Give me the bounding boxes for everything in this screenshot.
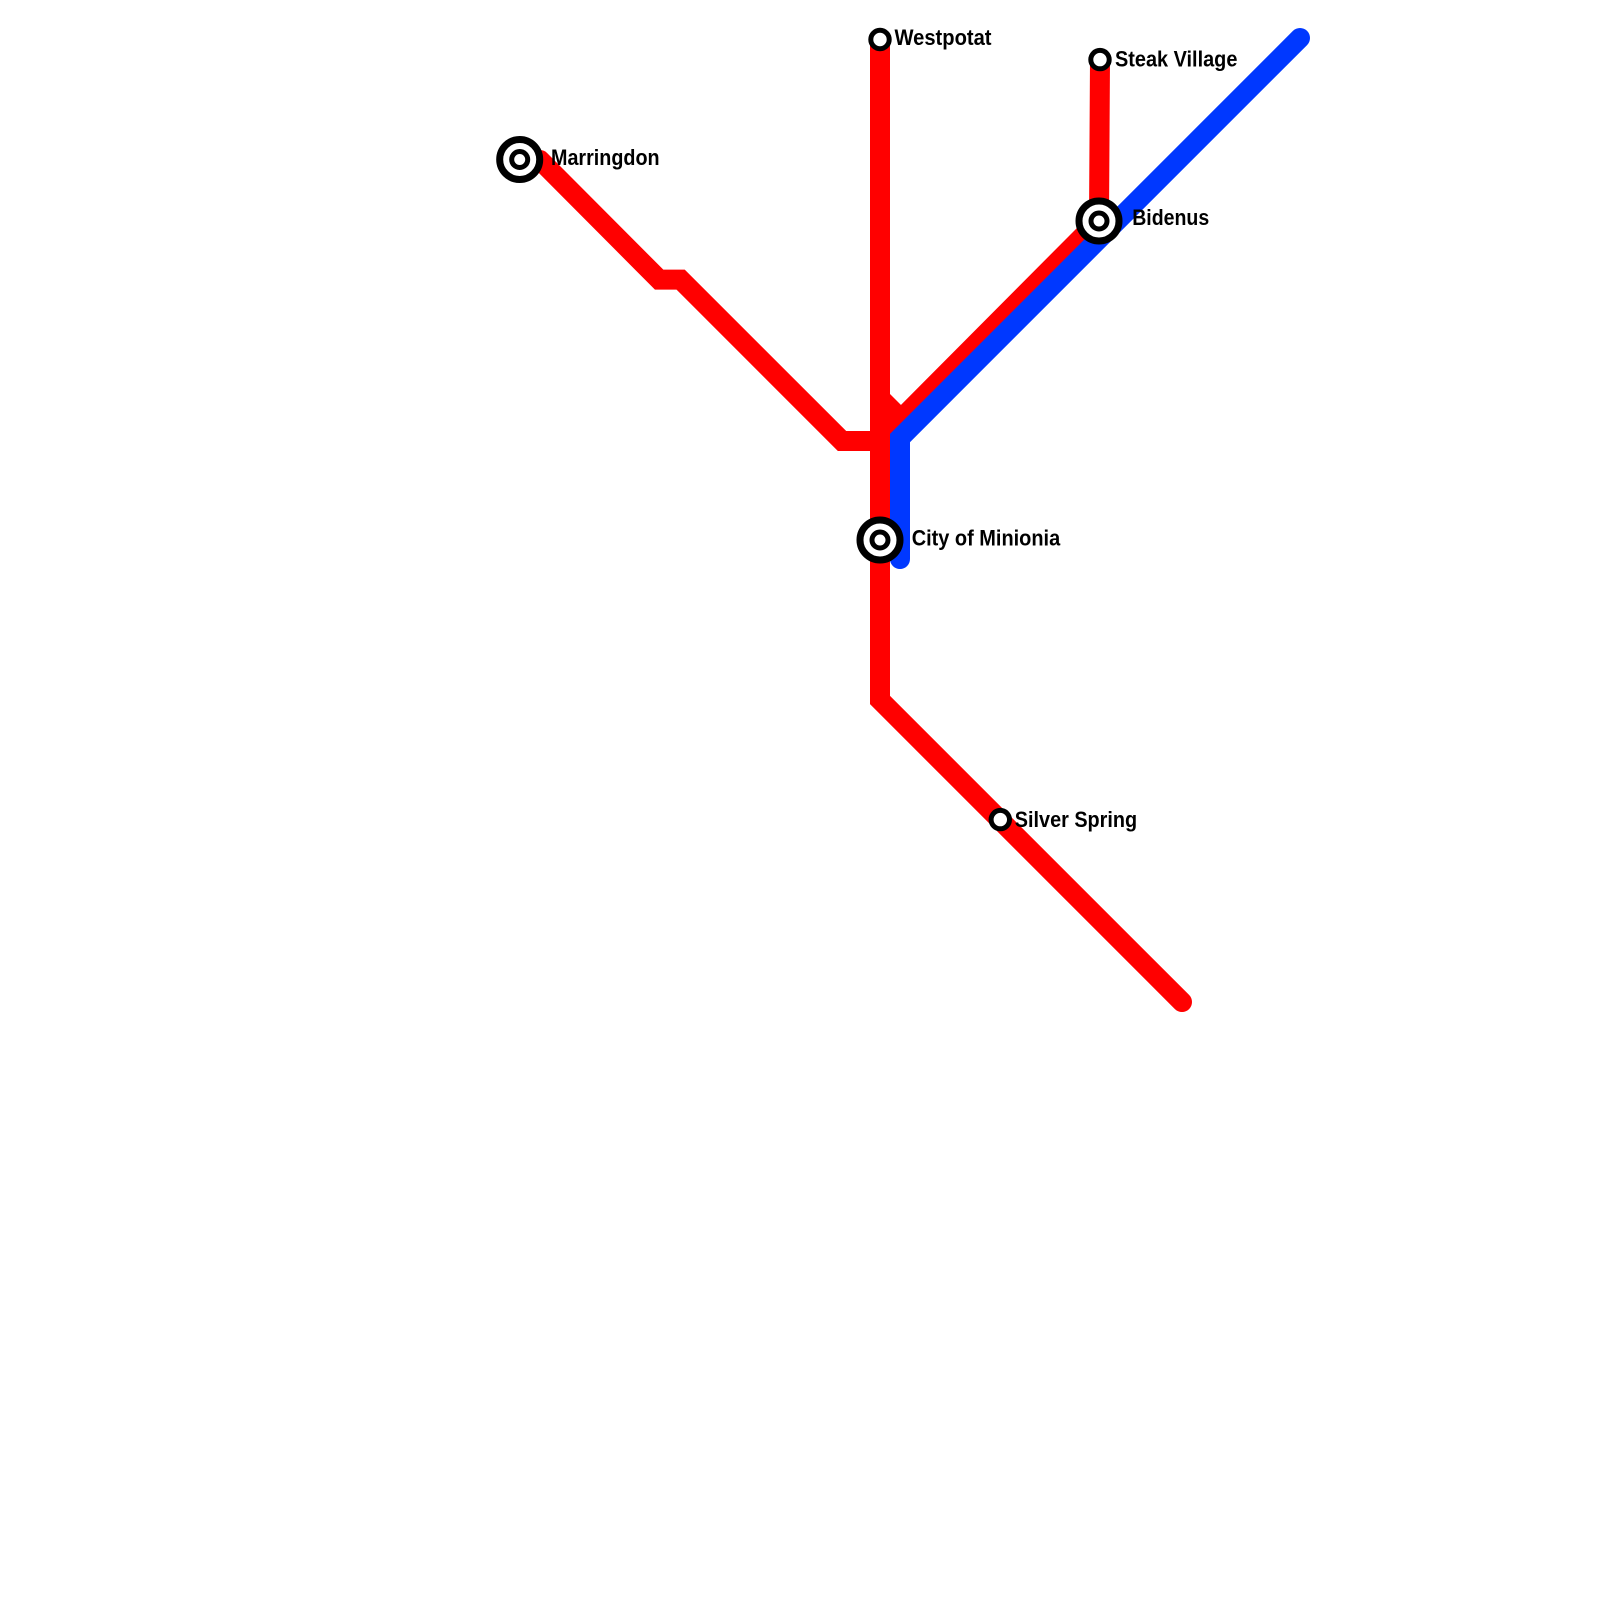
station Steak Village [1091,50,1109,68]
svg-text:Westpotat: Westpotat [895,25,992,50]
svg-text:Steak Village: Steak Village [1115,46,1237,71]
svg-text:Bidenus: Bidenus [1132,205,1209,230]
station Westpotat [871,30,889,48]
red line: Marringdon branch with jog, to junction [540,160,880,441]
svg-text:Marringdon: Marringdon [551,145,660,170]
red line: Steak Village - Bidenus - junction [906,60,1100,414]
interchange Bidenus [1079,201,1119,241]
interchange Marringdon [500,140,540,180]
svg-text:City of Minionia: City of Minionia [912,526,1061,551]
red junction filler polygon [890,394,915,434]
blue line: end cap top right - elbow - City of Minionia [900,38,1300,559]
station Silver Spring [991,810,1009,828]
interchange City of Minionia [860,520,900,560]
svg-text:Silver Spring: Silver Spring [1015,807,1137,832]
red line: Westpotat - junction - bend - Silver Spring - end [880,40,1182,1002]
